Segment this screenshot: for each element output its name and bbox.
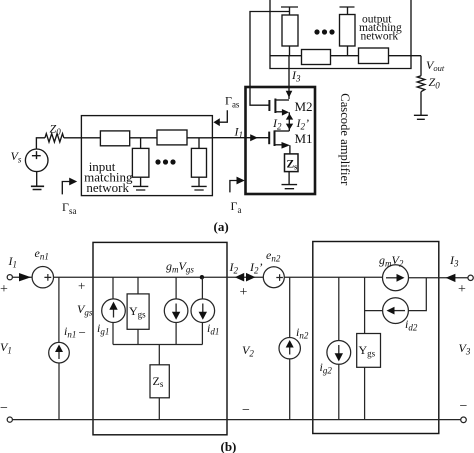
M2 channel bar xyxy=(274,99,276,114)
wire id1 to bottom bus xyxy=(201,323,203,345)
wire id2 right leg xyxy=(408,278,426,311)
source Vs circle xyxy=(25,149,48,172)
wire Ygs1 tap xyxy=(137,277,139,294)
svg-text:Zs: Zs xyxy=(287,159,298,172)
wire port1 to en1 xyxy=(12,276,32,278)
wire Zs to bottom rail xyxy=(158,398,160,420)
wire bottom bus box1 xyxy=(113,344,202,346)
wire in2 to bottom rail xyxy=(289,359,291,420)
controlled source gmV2 circle xyxy=(383,265,409,291)
admittance Ygs box (stage2) xyxy=(357,334,381,368)
noise source in2 circle xyxy=(279,338,300,359)
arrowhead I2 (left) xyxy=(235,273,244,282)
wire shunt2 bottom to series line xyxy=(347,46,349,56)
ellipsis dots (output network) xyxy=(314,29,334,34)
wire Ygs2 to bottom rail xyxy=(364,367,366,419)
M2 source lead xyxy=(275,111,283,113)
input matching network box xyxy=(81,116,212,196)
svg-text:en2: en2 xyxy=(266,248,281,264)
cascode amplifier box xyxy=(246,87,316,194)
wire in1 tap xyxy=(58,277,60,342)
svg-text:(b): (b) xyxy=(221,439,237,453)
noise source en1 circle xyxy=(32,267,53,288)
svg-text:(a): (a) xyxy=(214,219,229,234)
wire I1 into M1 gate xyxy=(213,137,270,139)
svg-text:gmV2: gmV2 xyxy=(379,253,404,269)
arrow Gamma_as xyxy=(219,110,227,122)
arrow Gamma_sa xyxy=(62,182,70,195)
wire in1 to bottom rail xyxy=(58,363,60,420)
wire in2 tap xyxy=(289,277,291,337)
svg-text:id2: id2 xyxy=(405,317,418,333)
shunt element rect 1 (output network) xyxy=(282,15,298,46)
output matching network box xyxy=(270,0,411,69)
arrowhead I1 (right) xyxy=(19,273,31,281)
wire Vs to ground xyxy=(36,172,38,186)
svg-text:I2: I2 xyxy=(272,116,282,132)
svg-text:−: − xyxy=(242,403,250,418)
M1 drain lead xyxy=(275,130,290,132)
M1 source lead xyxy=(275,144,283,146)
arrowhead I3 (down) xyxy=(286,91,293,98)
gmV2 right-arrow xyxy=(386,277,398,279)
controlled source gmVgs circle xyxy=(164,299,188,323)
id1 down-arrow xyxy=(202,304,204,316)
svg-text:Z0: Z0 xyxy=(50,122,62,138)
en2 plus sign xyxy=(276,274,283,281)
svg-text:Vs: Vs xyxy=(11,149,22,165)
gmVgs down-arrow xyxy=(175,304,177,316)
wire I3 from output network to M2 drain xyxy=(288,56,290,99)
M1 source arrowhead xyxy=(282,142,291,149)
svg-text:in1: in1 xyxy=(64,324,76,340)
current source ig1 circle xyxy=(102,299,126,323)
series element rect 1 (input network) xyxy=(100,131,129,146)
shunt element rect 2 (output network) xyxy=(340,15,356,47)
M2 drain lead xyxy=(275,99,289,101)
noise source en2 circle xyxy=(263,267,284,288)
transistor M1 xyxy=(269,130,290,148)
terminal port 3 top xyxy=(468,275,473,280)
svg-text:Vout: Vout xyxy=(426,58,445,73)
svg-text:Ygs: Ygs xyxy=(359,343,376,359)
series element rect 2 (input network) xyxy=(157,130,187,145)
svg-text:Γa: Γa xyxy=(231,199,242,215)
noise source in1 circle xyxy=(49,342,70,363)
wire gmVgs tap xyxy=(175,277,177,299)
wire box1 to I2 arrows xyxy=(227,276,263,278)
arrowhead I3 (left) xyxy=(446,274,456,282)
svg-text:I2: I2 xyxy=(229,260,239,276)
svg-text:network: network xyxy=(361,31,399,43)
terminal port bottom left xyxy=(7,417,12,422)
svg-text:Vgs: Vgs xyxy=(77,302,93,318)
supply cap T-bar 1 xyxy=(281,7,298,15)
wire shunt tap 1 (input) xyxy=(140,138,142,149)
ig1 up-arrow xyxy=(113,306,115,318)
wire main input line xyxy=(36,138,212,149)
impedance Zs box (stage1) xyxy=(150,365,169,398)
svg-text:I3: I3 xyxy=(291,68,301,84)
Vs plus sign xyxy=(32,151,41,159)
svg-text:−: − xyxy=(79,325,86,340)
wire ig1 tap xyxy=(112,277,114,299)
ground (input shunt 2) xyxy=(191,186,206,190)
svg-text:network: network xyxy=(86,180,129,195)
M2 gate bar xyxy=(268,100,270,111)
svg-text:Γas: Γas xyxy=(225,94,240,110)
wire bottom rail xyxy=(12,419,460,421)
svg-text:in2: in2 xyxy=(296,325,309,341)
svg-text:ig2: ig2 xyxy=(320,360,333,376)
equivalent-circuit box 1 (M1 stage) xyxy=(93,242,227,434)
svg-text:+: + xyxy=(78,278,85,293)
ground (cascode) xyxy=(282,185,298,189)
supply cap T-bar 2 xyxy=(340,7,355,15)
svg-text:V1: V1 xyxy=(0,340,12,356)
svg-text:I1: I1 xyxy=(234,125,244,141)
wire Z0 to ground xyxy=(420,92,422,115)
svg-text:id1: id1 xyxy=(207,321,219,337)
svg-text:M1: M1 xyxy=(295,131,313,146)
wire bus to Zs xyxy=(158,345,160,365)
wire gmV2 to port3 xyxy=(409,277,468,279)
svg-text:I2’: I2’ xyxy=(296,116,310,132)
ground (load) xyxy=(414,115,428,119)
junction dot id1 xyxy=(200,275,204,279)
M1 gate bar xyxy=(268,132,270,145)
series element rect A (output network) xyxy=(302,50,331,65)
M2 source arrowhead xyxy=(282,109,289,116)
resistor Z0 (source) zigzag xyxy=(45,134,64,142)
svg-text:Z0: Z0 xyxy=(429,75,441,91)
svg-text:Γsa: Γsa xyxy=(62,200,76,216)
arrowhead I2' (down) xyxy=(286,124,293,130)
resistor Z0 (load) zigzag xyxy=(417,76,425,92)
ellipsis dots (input network) xyxy=(155,159,175,164)
wire M2 source to M1 drain xyxy=(288,112,290,131)
in2 up-arrow xyxy=(289,344,291,355)
wire ig2 to bottom rail xyxy=(338,364,340,419)
shunt element rect 1 (input network) xyxy=(132,148,149,177)
wire ig1 to bottom bus xyxy=(112,323,114,345)
arrowhead I2' (right) xyxy=(246,273,255,282)
wire gmVgs to bottom bus xyxy=(175,323,177,345)
wire shunt1 bottom to series line xyxy=(289,46,291,56)
wire to Vout node xyxy=(420,56,422,76)
id2 left-arrow xyxy=(393,310,405,312)
svg-text:−: − xyxy=(460,399,468,414)
svg-text:+: + xyxy=(458,282,466,297)
svg-text:+: + xyxy=(240,285,248,300)
wire series line of output network xyxy=(270,55,421,57)
arrow Gamma_a xyxy=(230,181,238,193)
transistor M2 xyxy=(269,99,289,116)
svg-text:I3: I3 xyxy=(449,253,459,269)
svg-text:M2: M2 xyxy=(295,99,313,114)
svg-text:I2’: I2’ xyxy=(249,260,263,276)
wire id2 left leg xyxy=(365,310,383,312)
wire ig2 tap xyxy=(338,277,340,340)
svg-text:en1: en1 xyxy=(35,246,49,262)
svg-text:Zs: Zs xyxy=(153,374,164,389)
wire M1 source to Zs xyxy=(289,145,291,154)
current source id1 circle xyxy=(191,299,215,323)
wire en2 to box2 and top bus inside box2 xyxy=(284,276,382,278)
wire M2 gate from top xyxy=(250,12,290,106)
svg-text:−: − xyxy=(0,401,8,416)
ig2 down-arrow xyxy=(338,345,340,357)
svg-text:gmVgs: gmVgs xyxy=(166,259,194,275)
svg-text:+: + xyxy=(0,282,8,297)
svg-text:V2: V2 xyxy=(242,343,254,359)
svg-text:Ygs: Ygs xyxy=(129,304,146,320)
impedance Zs box (cascode) xyxy=(285,154,299,172)
svg-text:I1: I1 xyxy=(8,254,18,270)
terminal port bottom right xyxy=(461,417,467,423)
svg-text:V3: V3 xyxy=(459,341,471,357)
ground (source) xyxy=(31,186,44,189)
en1 plus sign xyxy=(44,274,51,281)
series element rect B (output network) xyxy=(359,48,389,64)
wire shunt tap 2 (input) xyxy=(198,138,200,149)
arrowhead I2 (up) xyxy=(286,114,293,120)
ground (input shunt 1) xyxy=(133,186,148,190)
shunt element rect 2 (input network) xyxy=(191,148,206,177)
wire top bus inside box1 xyxy=(93,276,227,278)
wire shunt1 to ground (input) xyxy=(140,177,142,186)
arrowhead I1 (right) xyxy=(250,134,258,141)
equivalent-circuit box 2 (M2 stage) xyxy=(313,242,439,434)
M1 channel bar xyxy=(274,130,276,146)
in1 up-arrow xyxy=(58,348,60,359)
wire Ygs2 tap xyxy=(364,277,366,333)
current source ig2 circle xyxy=(327,341,351,365)
terminal port 1 top xyxy=(7,275,12,280)
wire Zs to ground xyxy=(288,172,290,185)
wire shunt2 to ground (input) xyxy=(198,177,200,186)
wire Ygs1 to bottom bus xyxy=(137,329,139,344)
svg-text:ig1: ig1 xyxy=(97,321,109,337)
svg-text:Cascode amplifier: Cascode amplifier xyxy=(338,93,352,186)
admittance Ygs box (stage1) xyxy=(127,294,149,329)
current source id2 circle xyxy=(383,298,409,324)
wire id1 tap xyxy=(201,277,203,299)
wire en1 to box1 xyxy=(54,276,94,278)
